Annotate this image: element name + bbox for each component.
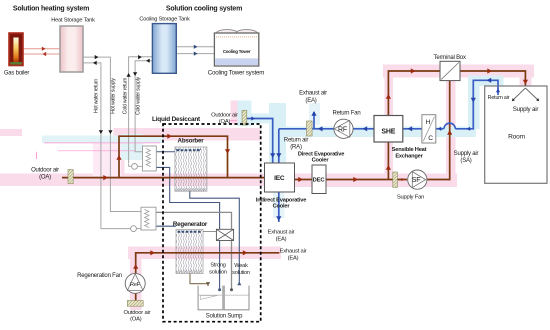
svg-text:Outdoor air: Outdoor air: [123, 310, 150, 316]
svg-text:Weak: Weak: [234, 263, 248, 269]
svg-text:(OA): (OA): [130, 317, 142, 323]
svg-text:(SA): (SA): [460, 158, 471, 164]
svg-text:Hot water return: Hot water return: [94, 79, 100, 113]
svg-text:Cooler: Cooler: [273, 204, 291, 210]
svg-text:Direct Evaporative: Direct Evaporative: [298, 151, 344, 157]
svg-text:Cooler: Cooler: [312, 158, 330, 164]
svg-text:Cooling Storage Tank: Cooling Storage Tank: [139, 17, 190, 23]
svg-text:Solution cooling system: Solution cooling system: [166, 6, 242, 13]
svg-text:C: C: [428, 135, 433, 142]
svg-text:(OA): (OA): [219, 119, 231, 125]
svg-text:SF: SF: [412, 177, 421, 184]
svg-text:SHE: SHE: [381, 129, 395, 136]
svg-text:Hot water supply: Hot water supply: [111, 78, 117, 114]
svg-text:solution: solution: [209, 270, 227, 276]
svg-text:Liquid Desiccant: Liquid Desiccant: [152, 116, 201, 123]
svg-text:Outdoor air: Outdoor air: [211, 113, 238, 119]
svg-text:Supply air: Supply air: [513, 106, 539, 113]
svg-text:H: H: [426, 119, 431, 126]
svg-text:Exhaust air: Exhaust air: [299, 91, 327, 97]
svg-text:(RA): (RA): [290, 145, 302, 151]
svg-text:Supply air: Supply air: [454, 151, 479, 157]
svg-text:ReF: ReF: [130, 282, 141, 288]
svg-text:(OA): (OA): [39, 175, 51, 181]
svg-text:Room: Room: [508, 133, 525, 140]
svg-text:RF: RF: [338, 126, 347, 133]
svg-text:Outdoor air: Outdoor air: [31, 168, 59, 174]
svg-text:IEC: IEC: [274, 175, 285, 182]
svg-text:Cold water return: Cold water return: [123, 77, 129, 114]
svg-text:(EA): (EA): [305, 98, 316, 104]
svg-text:Gas boiler: Gas boiler: [4, 71, 30, 77]
svg-text:Absorber: Absorber: [178, 138, 205, 145]
svg-text:Solution Sump: Solution Sump: [206, 314, 243, 320]
svg-text:Return air: Return air: [488, 95, 510, 101]
svg-text:Sensible Heat: Sensible Heat: [392, 147, 427, 153]
svg-text:Supply Fan: Supply Fan: [397, 195, 424, 201]
svg-text:Terminal Box: Terminal Box: [434, 55, 466, 61]
svg-text:(EA): (EA): [288, 256, 299, 262]
svg-text:Regenerator: Regenerator: [173, 221, 208, 228]
svg-text:DEC: DEC: [313, 178, 326, 184]
svg-text:Regeneration Fan: Regeneration Fan: [77, 273, 122, 279]
svg-text:solution: solution: [232, 270, 250, 276]
svg-text:Cold water supply: Cold water supply: [136, 76, 142, 114]
svg-text:Exhaust air: Exhaust air: [268, 230, 295, 236]
svg-text:Exchanger: Exchanger: [395, 153, 423, 159]
svg-text:Cooling Tower: Cooling Tower: [223, 49, 251, 54]
svg-text:Solution heating system: Solution heating system: [13, 6, 89, 13]
svg-text:Return air: Return air: [284, 138, 309, 144]
svg-text:Heat Storage Tank: Heat Storage Tank: [51, 18, 95, 24]
svg-text:Exhaust air: Exhaust air: [280, 249, 307, 255]
svg-text:Cooling Tower system: Cooling Tower system: [208, 70, 264, 77]
svg-text:Strong: Strong: [210, 263, 225, 269]
svg-text:Return Fan: Return Fan: [332, 111, 360, 117]
svg-text:Indirect Evaporative: Indirect Evaporative: [256, 197, 306, 203]
svg-text:(EA): (EA): [276, 237, 287, 243]
